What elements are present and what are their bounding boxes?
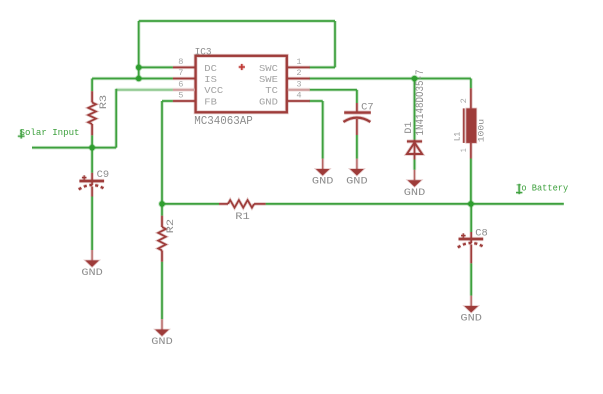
svg-text:100u: 100u <box>477 119 486 143</box>
svg-text:SWE: SWE <box>259 75 278 85</box>
svg-text:4: 4 <box>296 91 301 101</box>
svg-text:2: 2 <box>296 68 301 78</box>
svg-text:2: 2 <box>459 98 469 103</box>
svg-text:R1: R1 <box>235 211 250 223</box>
svg-text:C7: C7 <box>361 102 374 113</box>
svg-text:GND: GND <box>312 176 334 187</box>
svg-text:GND: GND <box>259 97 278 107</box>
svg-text:To Battery: To Battery <box>516 182 568 193</box>
svg-text:TC: TC <box>265 86 278 96</box>
svg-text:GND: GND <box>346 176 368 187</box>
svg-text:C8: C8 <box>475 228 488 239</box>
svg-text:R3: R3 <box>98 95 110 110</box>
svg-text:3: 3 <box>296 79 301 89</box>
svg-text:GND: GND <box>81 267 103 278</box>
svg-text:FB: FB <box>204 97 217 107</box>
svg-text:Solar Input: Solar Input <box>20 127 80 138</box>
svg-text:VCC: VCC <box>204 86 224 96</box>
svg-text:5: 5 <box>178 91 183 101</box>
svg-text:6: 6 <box>178 79 183 89</box>
svg-text:8: 8 <box>178 57 183 67</box>
svg-text:GND: GND <box>151 336 173 347</box>
svg-text:R2: R2 <box>165 219 177 234</box>
svg-text:GND: GND <box>460 313 482 324</box>
svg-text:IS: IS <box>204 75 217 85</box>
svg-text:1N4148DO35-7: 1N4148DO35-7 <box>415 70 427 136</box>
svg-text:7: 7 <box>178 68 183 78</box>
svg-text:1: 1 <box>459 148 469 152</box>
svg-text:C9: C9 <box>97 169 110 180</box>
svg-text:GND: GND <box>404 187 426 198</box>
svg-text:SWC: SWC <box>259 64 279 74</box>
svg-text:1: 1 <box>296 57 301 67</box>
svg-text:DC: DC <box>204 64 217 74</box>
svg-text:D1: D1 <box>403 122 415 134</box>
svg-text:L1: L1 <box>454 132 463 141</box>
svg-text:IC3: IC3 <box>195 46 212 58</box>
svg-text:MC34063AP: MC34063AP <box>194 115 253 128</box>
